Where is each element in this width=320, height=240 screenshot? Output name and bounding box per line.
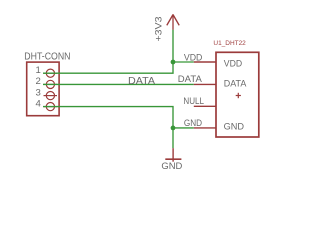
wire net +3V3 from pin1 up to supply <box>43 30 173 74</box>
svg-text:DATA: DATA <box>128 76 155 87</box>
U1 pin stub NULL (unconnected) <box>194 105 216 107</box>
wire net DATA <box>43 83 194 85</box>
svg-text:DATA: DATA <box>178 74 202 84</box>
junction at VDD node <box>171 60 176 65</box>
svg-text:4: 4 <box>35 98 41 109</box>
junction at GND node <box>171 126 176 131</box>
supply symbol +3V3 arrow <box>167 14 179 29</box>
U1 pin stub DATA <box>194 83 216 85</box>
svg-text:GND: GND <box>161 161 182 172</box>
U1 pin stub VDD <box>194 61 216 63</box>
svg-text:DATA: DATA <box>224 78 247 89</box>
svg-text:VDD: VDD <box>184 53 203 63</box>
connector pin 1 <box>44 69 58 77</box>
ground symbol bar <box>165 158 181 160</box>
svg-text:2: 2 <box>35 76 40 87</box>
svg-text:GND: GND <box>224 120 245 131</box>
U1 pin stub GND <box>194 127 216 129</box>
svg-text:1: 1 <box>35 65 40 76</box>
svg-text:GND: GND <box>184 118 202 128</box>
connector pin 2 <box>44 80 58 88</box>
wire GND branch to U1 <box>173 127 194 129</box>
IC U1 DHT22 body <box>216 52 259 137</box>
svg-text:+3V3: +3V3 <box>153 17 164 42</box>
connector pin 3 (unconnected) <box>44 92 58 100</box>
connector pin 4 <box>44 103 58 111</box>
svg-text:3: 3 <box>35 87 40 98</box>
wire VDD branch to U1 <box>173 61 194 63</box>
U1 inner polarity mark + <box>236 93 241 98</box>
connector DHT-CONN body <box>27 62 59 116</box>
ground symbol lead <box>172 148 174 162</box>
svg-text:DHT-CONN: DHT-CONN <box>24 52 70 63</box>
svg-text:U1_DHT22: U1_DHT22 <box>213 40 246 47</box>
wire net GND from pin4 down to ground <box>43 107 173 149</box>
svg-text:VDD: VDD <box>224 58 243 69</box>
svg-text:NULL: NULL <box>183 96 204 106</box>
